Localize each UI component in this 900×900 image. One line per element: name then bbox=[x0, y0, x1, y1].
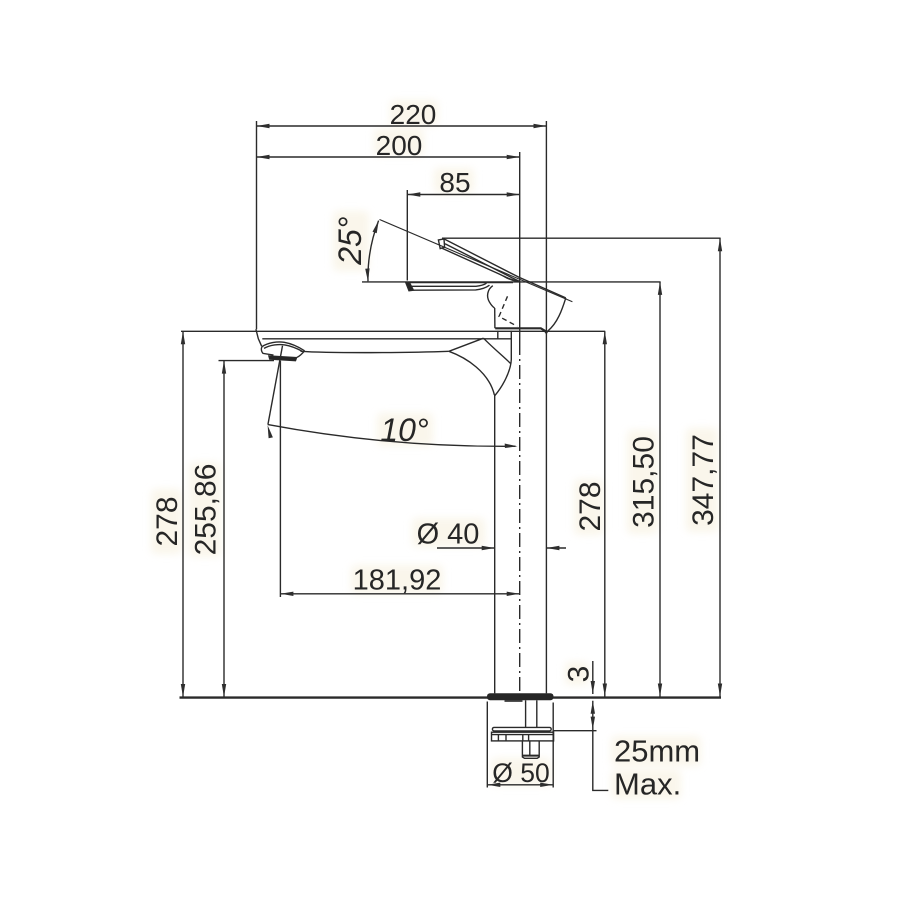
dimension 181,92 : dimension line bbox=[280, 593, 519, 595]
dimension 255,86 : dimension line bbox=[223, 361, 225, 697]
threaded stud below washer bbox=[522, 741, 539, 758]
svg-text:220: 220 bbox=[390, 99, 437, 130]
faucet body left edge bbox=[494, 308, 496, 328]
faucet body bottom edge bbox=[495, 328, 546, 331]
faucet spout tip face bbox=[256, 329, 262, 346]
svg-text:181,92: 181,92 bbox=[353, 565, 442, 597]
faucet aerator face (dark) bbox=[269, 356, 297, 361]
subtle warm halos behind texts (jpeg-like tint) bbox=[0, 0, 1, 1]
svg-text:Max.: Max. bbox=[614, 767, 681, 802]
faucet base flange (dark) bbox=[487, 693, 554, 700]
faucet spout underside bbox=[301, 351, 449, 352]
dimension diameter 40 : dimension line with outside arrows bbox=[437, 547, 495, 549]
dimension 85 : dimension line bbox=[407, 194, 519, 196]
faucet open handle lever : inner line bbox=[445, 244, 519, 281]
faucet column fillet mid bbox=[484, 338, 511, 363]
dimension 220 : dimension line bbox=[257, 125, 547, 127]
svg-text:85: 85 bbox=[439, 167, 470, 198]
extension line at under-washer (25mm max) bbox=[553, 730, 597, 732]
faucet aerator dome inner bbox=[264, 345, 302, 351]
dimension 347,77 : dimension line bbox=[719, 238, 721, 696]
svg-text:278: 278 bbox=[151, 496, 184, 546]
faucet aerator dome outer bbox=[262, 342, 305, 351]
dimension 278 right : dimension line bbox=[604, 331, 606, 696]
faucet spout top ticks under body bbox=[497, 331, 499, 339]
svg-text:10°: 10° bbox=[380, 412, 429, 448]
mounting surface line bbox=[180, 696, 722, 698]
faucet column fillet right bbox=[495, 360, 511, 396]
dimension 3 : dimension line upper segment bbox=[592, 661, 594, 694]
dimension 85 : extension line left bbox=[406, 190, 408, 281]
dimension 181,92 : extension line (vertical from aerator) bbox=[279, 361, 281, 597]
faucet open handle lever : tip cap bbox=[438, 239, 444, 249]
faucet centerline (dash-dot) bbox=[519, 341, 521, 693]
faucet body right edge bbox=[548, 298, 566, 331]
dimension 200 : extension/center line of faucet (solid part) bbox=[519, 152, 521, 341]
faucet closed handle lever : tip cap (dark) bbox=[406, 282, 414, 290]
faucet spout underside tangent to body bbox=[449, 338, 484, 351]
faucet aerator left cap bbox=[261, 347, 273, 355]
dimension diameter 50 : extension lines bbox=[486, 702, 488, 788]
faucet body hidden cartridge line (dashed) bbox=[499, 296, 517, 326]
faucet spout top surface bbox=[262, 338, 511, 340]
dimension 200 : dimension line bbox=[257, 156, 520, 158]
faucet closed handle lever : bottom edge bbox=[413, 285, 489, 290]
dimension 278 left : dimension line bbox=[182, 331, 184, 697]
dimension 220 : extension line left bbox=[256, 121, 258, 329]
faucet closed handle lever : mid line bbox=[412, 283, 487, 286]
flange under lip bbox=[505, 700, 523, 702]
extension line (315,50) horizontal at closed-handle level bbox=[362, 281, 661, 283]
threaded stud above washer bbox=[525, 700, 527, 727]
dimension diameter 50 : dimension line bbox=[487, 784, 553, 786]
svg-text:278: 278 bbox=[574, 481, 607, 531]
svg-text:200: 200 bbox=[376, 130, 423, 161]
svg-text:25mm: 25mm bbox=[614, 734, 700, 769]
faucet aerator right side bbox=[297, 351, 305, 358]
faucet open handle lever : bottom edge bbox=[442, 248, 519, 281]
svg-text:315,50: 315,50 bbox=[628, 436, 661, 528]
dimension 255,86 : extension line at aerator bbox=[219, 360, 275, 362]
dimension 3 / 25mm : lower segment with leader to Max. bbox=[593, 701, 609, 791]
dimension 220 : extension line right / column right edge bbox=[545, 121, 547, 693]
extension line (278 right / faucet body top) bbox=[181, 330, 605, 332]
faucet column fillet left bbox=[449, 351, 495, 395]
faucet body left fillet (concave) bbox=[488, 286, 495, 308]
svg-text:347,77: 347,77 bbox=[687, 434, 720, 526]
dimension 10 deg : arc bbox=[268, 425, 516, 447]
faucet open handle lever : top edge bbox=[444, 239, 566, 298]
faucet closed handle lever : top edge bbox=[409, 282, 513, 284]
dimension 10 deg : spray direction line from aerator bbox=[268, 346, 283, 425]
faucet body corner notch bbox=[545, 331, 548, 334]
dimension 25 deg : reference line along open handle bbox=[380, 220, 573, 302]
dimension 315,50 : dimension line bbox=[659, 282, 661, 697]
dimension 25 deg : arc bbox=[368, 221, 379, 282]
under-counter washer top bar bbox=[492, 727, 551, 731]
svg-text:Ø 50: Ø 50 bbox=[492, 758, 549, 788]
svg-text:Ø 40: Ø 40 bbox=[417, 519, 480, 551]
faucet column left edge bbox=[494, 395, 496, 694]
svg-text:25°: 25° bbox=[332, 216, 368, 266]
svg-text:255,86: 255,86 bbox=[190, 464, 223, 556]
svg-text:3: 3 bbox=[563, 666, 596, 683]
extension line top (347,77) at handle tip level bbox=[442, 237, 721, 239]
under-counter washer body bbox=[492, 732, 554, 741]
faucet handle fillet lens lower edge bbox=[504, 276, 519, 282]
